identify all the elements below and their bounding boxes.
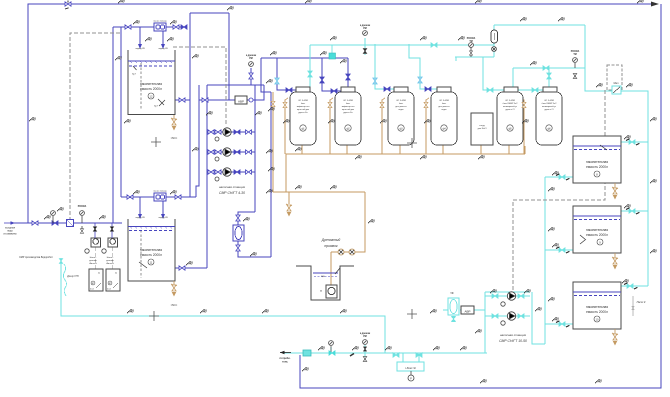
wire AVR control line [199, 99, 235, 101]
wire right leg to distribution [585, 68, 648, 286]
valve vessel F2 cap [331, 89, 337, 93]
vessel F6 filter [536, 92, 562, 145]
wire vessel F2 side drain [330, 98, 333, 154]
wire control line tank T1 level [70, 33, 120, 220]
svg-text:бокс: бокс [399, 103, 403, 105]
check valve pit 1 [338, 249, 344, 255]
plus mark below T1 [151, 137, 161, 147]
valve tank R3 inlet [627, 284, 633, 288]
svg-text:к дренаж: к дренаж [360, 25, 371, 27]
indicator vessel F1 [300, 125, 306, 131]
wire right header y68 [513, 67, 585, 69]
du labels right column [650, 117, 657, 122]
wire loop rectangle right side [228, 13, 230, 100]
valve main solenoid [303, 350, 311, 356]
pump P2 [223, 148, 231, 156]
wire vessel F1 side drain [285, 98, 288, 154]
svg-text:Насос К: Насос К [637, 301, 646, 304]
svg-text:удал-я Cl: удал-я Cl [545, 109, 554, 111]
wire suction U bottom [532, 292, 545, 344]
svg-text:Дренажный: Дренажный [321, 238, 341, 242]
wire rotameter top stub [493, 25, 495, 30]
label salt tank [478, 125, 487, 130]
wire vessel F5 side drain [521, 98, 524, 154]
valve feed V1 [32, 221, 38, 225]
drain valve tank R2 [612, 253, 618, 269]
solenoid valve on rinse header [329, 45, 336, 59]
level arrow pit [335, 268, 340, 274]
gauge pump 1 [215, 137, 219, 141]
svg-text:бокс: бокс [346, 103, 350, 105]
valve side drain F5 [522, 102, 526, 107]
wire H4 drop to vessel F1 cap [309, 45, 311, 87]
svg-text:емкость 2000л: емкость 2000л [586, 310, 608, 314]
svg-text:воды: воды [442, 109, 447, 111]
svg-text:насосная станция: насосная станция [500, 333, 526, 337]
valve vessel F3 drop [373, 78, 377, 84]
wire dosing pump control 2 [112, 247, 114, 269]
svg-text:ТМ: ТМ [469, 41, 472, 43]
valve riser F6 [547, 73, 551, 79]
label raw water [3, 228, 17, 236]
wire gauge stem at station [250, 68, 252, 85]
valve vessel F4 drop [418, 77, 422, 83]
level arrows tank R2 [580, 235, 586, 244]
label dosing pump 2 [106, 257, 115, 265]
label sensors T1 [132, 73, 158, 108]
indicator tank T1 [148, 93, 154, 99]
svg-text:к дренаж: к дренаж [246, 55, 257, 57]
AVR box station two [461, 306, 474, 314]
svg-text:удал-я Fe: удал-я Fe [343, 112, 353, 114]
wire vessel F2 side feed [322, 58, 341, 91]
svg-text:УФ: УФ [450, 292, 453, 295]
drain valve tank R1 [612, 183, 618, 199]
sample box i-box [397, 362, 424, 371]
vessel F1 filter [290, 92, 316, 145]
wire pit drop pipe [330, 252, 332, 286]
valve tank T1 header A [125, 25, 131, 29]
gauge main line [329, 341, 334, 353]
label fill arrows T1 [135, 48, 168, 50]
mark main line [350, 354, 354, 357]
wire vessel F4 side drain [426, 98, 429, 154]
rotameter [491, 30, 498, 43]
wire AVR to header riser [246, 85, 264, 100]
vessel F3 filter [388, 92, 414, 145]
label gauge rinse [360, 25, 371, 30]
wire tanks suction manifold [544, 177, 546, 344]
valve tank T2 outlet [179, 266, 185, 270]
label gauge right [571, 50, 580, 56]
svg-text:СМР СН/ГТ 10-50: СМР СН/ГТ 10-50 [499, 339, 527, 343]
svg-text:бокс КБ/ВР 5х2: бокс КБ/ВР 5х2 [503, 103, 519, 105]
gauge UF1 [501, 302, 505, 306]
indicator vessel F2 [345, 125, 351, 131]
pressure regulator on right [612, 86, 621, 94]
indicator tank R1 [594, 171, 600, 177]
wire tank T1 fill drop 1 [139, 27, 141, 44]
gauge pump 3 [215, 177, 219, 181]
du labels T1 circuit [133, 20, 140, 25]
wire H5 top header [494, 24, 585, 26]
wire tank R2 inlet [621, 210, 648, 212]
svg-text:подвод ХВ: подвод ХВ [135, 217, 145, 219]
svg-text:удал-я Cl: удал-я Cl [506, 109, 515, 111]
indicator vessel F5 [507, 125, 513, 131]
valve tank R1 inlet [629, 140, 635, 144]
valve under gauge main [329, 351, 335, 355]
valve vessel F5 feed [487, 88, 493, 92]
indicator tank R3 [594, 316, 600, 322]
wire bottom return loop [61, 258, 385, 353]
svg-text:подвод ХВ: подвод ХВ [158, 217, 168, 219]
du labels T2 circuit [133, 190, 140, 195]
svg-text:РМ: РМ [363, 336, 367, 338]
svg-text:приямок: приямок [324, 244, 338, 248]
wire H1 left drop [261, 58, 271, 92]
wire tank R1 inlet [621, 141, 648, 143]
wire H4 rinse header [310, 44, 494, 46]
valve on rinse header [431, 43, 437, 47]
sensor circle sample box [408, 371, 414, 381]
label vessel F6 [542, 99, 558, 111]
label dosing tank 1 internals [90, 273, 101, 291]
vessel F2 filter [335, 92, 361, 145]
wire station two suction bus [484, 292, 486, 353]
wire tank R2 outlet [545, 249, 573, 251]
AVR box station one [235, 96, 247, 104]
svg-text:из скважины: из скважины [3, 234, 17, 236]
svg-text:подвод ХВ: подвод ХВ [158, 48, 168, 50]
svg-text:РОСМА: РОСМА [571, 50, 580, 53]
wire dosing branch 1 [94, 223, 96, 238]
du labels loop [192, 54, 199, 59]
valves pump row 3 [208, 170, 252, 174]
wire backwash drain riser [272, 92, 274, 192]
pump UF2 [507, 312, 515, 320]
wire sample box drop 1 [402, 353, 404, 362]
svg-text:Насос-: Насос- [90, 257, 97, 259]
gauge pump 2 [215, 157, 219, 161]
valve vessel F4 cap [425, 87, 431, 91]
svg-text:і-бокс Ж: і-бокс Ж [405, 366, 416, 370]
valve tank T2 header A [127, 195, 133, 199]
label vessel F4 [438, 99, 449, 111]
valve tank R3 outlet [559, 322, 565, 326]
indicator tank T2 [148, 259, 154, 265]
wire gauge two stem [330, 347, 332, 353]
svg-text:насосная станция: насосная станция [219, 185, 245, 189]
vessel F5 filter [497, 92, 523, 145]
wire sample box drop 2 [418, 353, 420, 362]
wire tank T1 fill header [113, 26, 186, 28]
du labels main line [318, 346, 325, 351]
valve marks right tanks [556, 139, 639, 327]
svg-text:2в: 2в [98, 273, 100, 275]
svg-text:СМР производства Водоробот: СМР производства Водоробот [19, 256, 54, 259]
wire vessel feed riser [270, 92, 272, 257]
wire vessel F3 feed drop [375, 44, 394, 89]
indicator vessel F3 [398, 125, 404, 131]
tank T1 water level [128, 61, 175, 66]
tank R2 water level [573, 216, 621, 220]
du labels headers [270, 51, 277, 56]
svg-text:вода: вода [7, 231, 13, 233]
drain valve tank T2 [171, 281, 177, 296]
svg-text:«Атлон»: «Атлон» [89, 262, 98, 265]
valve vessel F1 cap [286, 88, 292, 92]
svg-text:емкость 2000л: емкость 2000л [586, 165, 608, 169]
svg-text:насос повыш: насос повыш [153, 21, 167, 23]
strainer filter on feed [67, 220, 74, 227]
svg-text:исходная: исходная [5, 228, 16, 230]
svg-text:ТМ: ТМ [573, 54, 576, 56]
valve backwash drain riser [271, 101, 275, 106]
valves UF row 2 [492, 314, 524, 318]
label vessel F5 [503, 99, 519, 111]
tank T2 water level [128, 227, 175, 231]
svg-text:дозатор: дозатор [106, 260, 114, 262]
valve vessel F2 feed [320, 77, 324, 83]
label dosing pump 1 [89, 257, 98, 265]
arrow top right outlet [651, 2, 659, 7]
svg-text:емкость 2000л: емкость 2000л [140, 87, 162, 91]
svg-text:Р: Р [410, 376, 412, 380]
svg-text:сброс: сброс [171, 304, 178, 307]
tank R1 water level [573, 146, 621, 150]
wire vessel one feed drop [277, 58, 296, 90]
wire dosing drain squiggle [63, 264, 66, 296]
valves pump row 1 [208, 130, 252, 134]
gauge right header [573, 58, 578, 79]
wire level sensor line T1 [140, 63, 142, 110]
gauge rinse header [363, 31, 368, 54]
gauge main assembly [363, 340, 368, 362]
wire riser F6 [548, 68, 550, 87]
label pump station one [219, 185, 245, 195]
du labels tan [268, 107, 275, 112]
wire bottom gauge stem [364, 345, 366, 361]
wire tank T2 outlet to pump suction [175, 267, 207, 269]
dosing tank 2 [106, 269, 120, 291]
valve vessel F6 feed [532, 88, 538, 92]
wire control line regulator to station two [513, 90, 605, 292]
wire vessel F5 bottom drop [508, 145, 510, 154]
plus mark near UF [407, 309, 417, 319]
valve tank T1 header B [173, 25, 179, 29]
label pump station two [499, 333, 527, 343]
wire tank R1 outlet [545, 176, 573, 178]
svg-text:зафильтр его: зафильтр его [342, 105, 356, 108]
wire riser to tank T1 line B [120, 27, 122, 197]
valve side drain F4 [424, 102, 428, 107]
label gauge bottom [360, 333, 371, 338]
wire AVR2 link [460, 309, 485, 311]
du labels bottom loop [127, 309, 134, 314]
gauge UF2 [501, 321, 505, 325]
tank R3 recirculation stub [632, 296, 634, 316]
svg-text:для умягч-я: для умягч-я [438, 106, 449, 108]
svg-text:СМР СН/ГТ 4-30: СМР СН/ГТ 4-30 [219, 191, 245, 195]
svg-text:РОСМА: РОСМА [78, 205, 87, 208]
svg-text:накопительная: накопительная [586, 228, 608, 232]
du labels left column [29, 117, 36, 122]
svg-text:дозатор: дозатор [89, 260, 97, 262]
wire H4 gauge stem [364, 38, 366, 55]
wire right down leg [584, 25, 586, 68]
wire top header pipe [28, 4, 656, 223]
tank R1 storage 2000l [573, 136, 621, 183]
booster pump box T1 [154, 23, 166, 31]
svg-text:накопительная: накопительная [140, 248, 162, 252]
wire H1 drop to vessel F2 [347, 58, 349, 87]
tank R3 water level [573, 292, 621, 296]
du labels vessels [283, 119, 290, 124]
check valves dosing [93, 227, 113, 232]
wire salt tank bottom drop [480, 145, 482, 154]
membrane vessel UF [448, 298, 459, 315]
label gauge rotameter [467, 37, 476, 43]
wire station top header [207, 84, 264, 86]
drain valve sampling [286, 204, 292, 216]
wire vessel F5 feed riser [483, 57, 504, 90]
wire right edge drain pipe [300, 4, 661, 388]
svg-text:РМ: РМ [249, 58, 253, 60]
valve right header [543, 66, 549, 70]
plus mark bottom left [149, 311, 159, 321]
valve AVR line [202, 98, 208, 102]
valve membrane top [236, 215, 240, 221]
wire station two bus tops [485, 291, 530, 293]
gauge dosing 2 [102, 249, 106, 253]
svg-text:к дренаж: к дренаж [360, 333, 371, 335]
svg-text:АВР: АВР [238, 100, 244, 104]
wire dosing pump control 1 [95, 247, 97, 269]
drain pit water level [313, 273, 338, 276]
svg-text:удал-я Fe: удал-я Fe [298, 112, 308, 114]
svg-text:бокс КБ/ВР 5х2: бокс КБ/ВР 5х2 [542, 103, 558, 105]
arrow fill T1 a [138, 44, 142, 49]
wire tank T2 fill drop 1 [139, 197, 141, 214]
arrow fill T2 b [161, 214, 165, 219]
valve vessel F1 feed [275, 78, 279, 84]
wire rotameter bottom stub [493, 43, 495, 57]
valve riser F1 cyan [308, 71, 312, 77]
wire vessel F2 bottom drop [346, 145, 348, 154]
label vessel F1 [297, 99, 311, 114]
gauge station one [249, 62, 254, 67]
wire riser to tank T1 line A [112, 27, 114, 223]
svg-text:насос повыш: насос повыш [153, 191, 167, 193]
valve membrane UF bottom [452, 317, 456, 322]
svg-text:ФС 5-62М: ФС 5-62М [396, 99, 406, 102]
valve tank R2 inlet [629, 209, 635, 213]
wire vessel F6 feed [513, 68, 543, 90]
wire header H1 [261, 57, 348, 59]
wire pump suction bus [206, 85, 208, 268]
valves pump row 2 [208, 150, 252, 154]
tank R2 storage 2000l [573, 206, 621, 253]
wire membrane feed [238, 212, 255, 225]
gauge on feed [51, 211, 56, 223]
label fill arrows T2 [135, 217, 168, 219]
valve sample 2 [416, 353, 422, 357]
indicator vessel F6 [546, 125, 552, 131]
valve loop inlet [181, 25, 187, 29]
svg-text:РМ: РМ [363, 28, 367, 30]
pump UF1 [507, 292, 515, 300]
svg-text:АВР: АВР [464, 310, 470, 314]
pump P3 [223, 168, 231, 176]
svg-text:Насос-: Насос- [107, 257, 114, 259]
label vessel F3 [395, 99, 406, 111]
drain pit walls [296, 266, 354, 300]
wire level sensor line T2 [140, 230, 142, 278]
svg-text:емкость 2000л: емкость 2000л [140, 253, 162, 257]
svg-text:ФС 5-62М: ФС 5-62М [343, 99, 353, 102]
svg-text:Дозир ГПХ: Дозир ГПХ [66, 276, 79, 278]
svg-text:для умягч-я: для умягч-я [395, 106, 406, 108]
svg-text:бокс: бокс [301, 103, 305, 105]
wire raw water feed line [10, 222, 122, 224]
du labels top [118, 0, 125, 3]
valve side drain F1 [283, 102, 287, 107]
svg-text:воды: воды [399, 109, 404, 111]
wire tank R3 outlet [545, 323, 573, 325]
svg-text:бокс: бокс [442, 103, 446, 105]
svg-text:«Атлон»: «Атлон» [106, 262, 115, 265]
wire sampling drain stub [288, 192, 290, 204]
valve feed drain [80, 226, 83, 233]
arrow fill T2 a [138, 214, 142, 219]
wire control dashed box around regulator [607, 65, 622, 90]
svg-text:подвод ХВ: подвод ХВ [135, 48, 145, 50]
svg-text:орган-ой доз: орган-ой доз [297, 108, 309, 111]
wire tank T2 fill header [121, 196, 196, 198]
wire tank T2 header to suction link [196, 85, 199, 197]
booster pump box T2 [154, 193, 166, 201]
svg-text:орган-ой доз: орган-ой доз [342, 108, 354, 111]
valve tank T2 header B [175, 195, 181, 199]
wire station two row 1 [485, 295, 530, 297]
valve side drain F2 [328, 102, 332, 107]
wire manifold end stub [524, 146, 526, 154]
svg-text:2в: 2в [115, 273, 117, 275]
svg-text:Н: Н [320, 290, 322, 293]
svg-text:сосуд: сосуд [479, 125, 485, 127]
wire pump row 1 [207, 131, 255, 133]
svg-text:накопительная: накопительная [140, 82, 162, 86]
svg-text:ФС 5-62М: ФС 5-62М [439, 99, 449, 102]
valve vessel F3 cap [384, 87, 390, 91]
plus mark near F3 [407, 138, 417, 148]
wire membrane outlet [238, 241, 271, 257]
indicator vessel F4 [441, 125, 447, 131]
wire vessel F3 bottom drop [399, 145, 401, 154]
svg-text:емкость 2000л: емкость 2000л [586, 233, 608, 237]
cross valve under rotameter [492, 47, 497, 52]
gauge before rotameter [469, 43, 474, 57]
wire tank R3 inlet [621, 285, 648, 287]
drain valve tank T1 [171, 115, 177, 130]
wire vessels bottom manifold [286, 154, 525, 192]
valve tank R2 outlet [559, 248, 565, 252]
svg-text:сброс: сброс [171, 137, 178, 140]
arrow raw water inlet [4, 221, 15, 224]
svg-text:зафильтр его: зафильтр его [297, 105, 311, 108]
valve stem mark top [65, 1, 69, 10]
